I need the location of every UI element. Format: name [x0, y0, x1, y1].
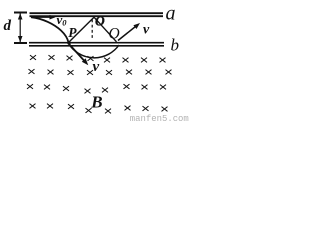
line peak Q down to O: [94, 17, 117, 42]
svg-text:v: v: [143, 23, 150, 38]
plate a (top plate, double line): [30, 13, 164, 16]
svg-text:B: B: [90, 92, 102, 111]
svg-text:manfen5.com: manfen5.com: [130, 114, 189, 124]
plate b (bottom plate, double line): [29, 43, 164, 46]
svg-text:a: a: [166, 3, 176, 25]
node P junction blob: [67, 41, 70, 44]
circular arc in magnetic field from P to O: [69, 44, 120, 58]
field crosses row 3: [27, 84, 166, 93]
field crosses row 2: [29, 69, 172, 75]
d dimension arrow (double-headed with end caps): [14, 13, 27, 44]
svg-text:d: d: [4, 18, 12, 34]
svg-text:b: b: [171, 36, 180, 55]
v arrow at O (exit velocity): [118, 23, 140, 41]
line P to peak Q: [69, 17, 95, 42]
field crosses row 1: [30, 55, 166, 62]
field crosses row 4: [30, 104, 168, 114]
v0 arrow (initial velocity): [31, 15, 56, 20]
v arrow at P (velocity entering field): [69, 44, 88, 65]
parabolic trajectory from entry to P: [31, 17, 69, 42]
svg-text:v: v: [93, 59, 100, 75]
dashed altitude line from peak: [91, 20, 93, 41]
svg-text:O: O: [95, 14, 105, 29]
